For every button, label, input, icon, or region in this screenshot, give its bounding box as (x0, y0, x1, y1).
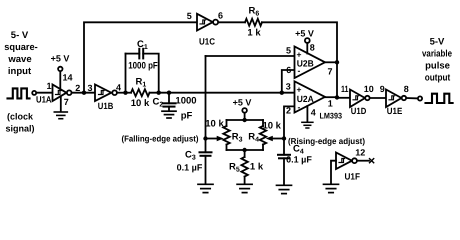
svg-text:5: 5 (187, 11, 192, 21)
U1F output wire and no-connect X (357, 160, 369, 162)
svg-text:U1F: U1F (345, 171, 361, 181)
svg-text:0.1 µF: 0.1 µF (286, 154, 312, 164)
svg-text:1 k: 1 k (250, 161, 264, 172)
svg-text:6: 6 (286, 65, 291, 75)
svg-text:signal): signal) (5, 123, 34, 133)
ground (U1F) (324, 184, 339, 192)
svg-text:+: + (297, 50, 302, 60)
svg-text:1 k: 1 k (247, 28, 261, 39)
inverter U1A (53, 85, 67, 102)
svg-text:+5 V: +5 V (295, 29, 314, 39)
wiper R3 (206, 138, 219, 140)
wire top feedback from U1A/U1B node up and right to U1C input (84, 22, 197, 92)
svg-text:4: 4 (116, 83, 121, 93)
capacitor C4 (278, 154, 290, 156)
svg-text:6: 6 (218, 11, 223, 21)
comparator +/- marks (297, 50, 302, 113)
wire U1E to output terminal (406, 97, 418, 99)
+5V terminal (pots) (242, 108, 247, 113)
svg-text:pulse: pulse (425, 60, 450, 71)
wire +5V to pot rail (244, 113, 246, 120)
wire input terminal to U1A (36, 92, 52, 94)
wire bus to U1D (337, 97, 350, 99)
U1A pin7 ground stub (60, 97, 62, 112)
wire bus vertical between outputs (336, 62, 338, 97)
svg-text:(Falling-edge adjust): (Falling-edge adjust) (122, 133, 199, 143)
inverter U1D (350, 90, 365, 108)
ground (C2) (162, 111, 176, 118)
svg-text:7: 7 (328, 66, 333, 76)
ground (C3) (198, 184, 213, 192)
svg-text:12: 12 (355, 148, 365, 158)
wire R1 to comparator inputs (main ramp node) (150, 92, 295, 94)
svg-text:(Rising-edge adjust): (Rising-edge adjust) (288, 136, 365, 146)
inverter U1B (95, 85, 111, 102)
ground (C4) (277, 185, 292, 193)
wire pot top rail (227, 119, 264, 121)
svg-text:10 k: 10 k (262, 121, 281, 132)
wire C1 top left (126, 53, 140, 55)
ground (U2A pin4) (302, 122, 313, 128)
svg-text:14: 14 (63, 73, 73, 83)
U2B pin8 power stub (306, 43, 308, 54)
op-amp U2B (comparator) (295, 47, 326, 79)
svg-text:10 k: 10 k (131, 98, 150, 109)
svg-text:wave: wave (7, 54, 31, 65)
wire U2A output to bus (325, 96, 337, 98)
wiper R4 (271, 138, 284, 140)
svg-text:4: 4 (311, 108, 316, 118)
inverter U1C (197, 14, 213, 31)
svg-text:9: 9 (380, 84, 385, 94)
svg-text:2: 2 (286, 105, 291, 115)
wire U2B output to bus (325, 61, 337, 63)
resistor R5 (244, 150, 246, 157)
wire pot bottom rail (227, 149, 264, 151)
potentiometer R4 (262, 120, 264, 126)
svg-text:U1D: U1D (351, 106, 367, 116)
svg-text:U1C: U1C (199, 36, 215, 46)
ground (R5) (237, 184, 252, 192)
wire U1A output to U1B input (72, 92, 95, 94)
svg-text:1: 1 (47, 81, 52, 91)
output pulse glyph (426, 94, 453, 103)
svg-text:5-V: 5-V (430, 37, 445, 48)
svg-text:1: 1 (328, 99, 333, 109)
wire rising-edge node vertical to U2A pin2 (284, 106, 295, 154)
svg-text:output: output (425, 72, 451, 83)
potentiometer R3 (226, 120, 228, 126)
svg-text:8: 8 (404, 84, 409, 94)
input square wave glyph (8, 88, 30, 98)
U1F input ground wire (331, 161, 336, 184)
svg-text:-: - (298, 102, 301, 112)
+5V terminal (U2B pin8) (305, 38, 310, 43)
inverter U1F (336, 153, 352, 170)
wire falling-edge node vertical (205, 56, 207, 152)
svg-text:2: 2 (75, 83, 80, 93)
wire U2B pin6 stub (282, 70, 295, 93)
svg-text:square-: square- (4, 42, 38, 53)
svg-text:U1A: U1A (36, 95, 52, 105)
capacitor C1 (138, 49, 140, 59)
svg-text:7: 7 (64, 97, 69, 107)
svg-text:1000: 1000 (175, 96, 196, 107)
svg-text:+5 V: +5 V (51, 54, 70, 64)
svg-text:variable: variable (422, 49, 452, 60)
wire U2B pin5 from falling node (206, 55, 295, 57)
resistor R6 (245, 19, 262, 26)
wire R6 to pull-up bus corner (262, 22, 337, 62)
svg-text:U1B: U1B (98, 101, 114, 111)
svg-text:(clock: (clock (7, 112, 34, 122)
wire U1C output to R6 (218, 21, 245, 23)
svg-text:input: input (8, 66, 32, 77)
svg-text:+: + (297, 85, 302, 95)
U1A pin14 power stub (59, 71, 61, 89)
svg-text:pF: pF (181, 111, 193, 122)
wire C1 top right (143, 54, 159, 93)
svg-text:11: 11 (341, 84, 349, 94)
wire U1B output to R1 (118, 92, 132, 94)
svg-text:5: 5 (286, 46, 291, 56)
svg-text:10: 10 (364, 84, 374, 94)
output terminal circle (418, 96, 422, 100)
U2A pin4 ground stub (306, 106, 308, 122)
node junction dots (82, 60, 339, 152)
capacitor C2 (168, 93, 170, 104)
inverter U1E (386, 90, 402, 108)
ground (U1A pin7) (54, 112, 67, 119)
input terminal circle (32, 91, 36, 95)
svg-text:+5 V: +5 V (233, 97, 252, 107)
svg-text:3: 3 (286, 82, 291, 92)
+5V terminal (U1A pin14) (58, 67, 62, 71)
svg-text:10 k: 10 k (205, 119, 224, 130)
resistor R1 (131, 89, 150, 96)
svg-text:U1E: U1E (387, 106, 403, 116)
svg-text:3: 3 (88, 83, 93, 93)
capacitor C1 branch left leg (125, 54, 127, 93)
wire U1D to U1E (370, 97, 386, 99)
svg-text:LM393: LM393 (320, 111, 343, 120)
op-amp U2A (comparator) (295, 81, 326, 112)
svg-text:1000 pF: 1000 pF (128, 60, 158, 71)
svg-text:8: 8 (310, 43, 315, 53)
svg-text:5- V: 5- V (11, 30, 29, 41)
svg-text:0.1 µF: 0.1 µF (177, 163, 203, 173)
svg-text:-: - (298, 66, 301, 76)
capacitor C3 (200, 151, 212, 153)
